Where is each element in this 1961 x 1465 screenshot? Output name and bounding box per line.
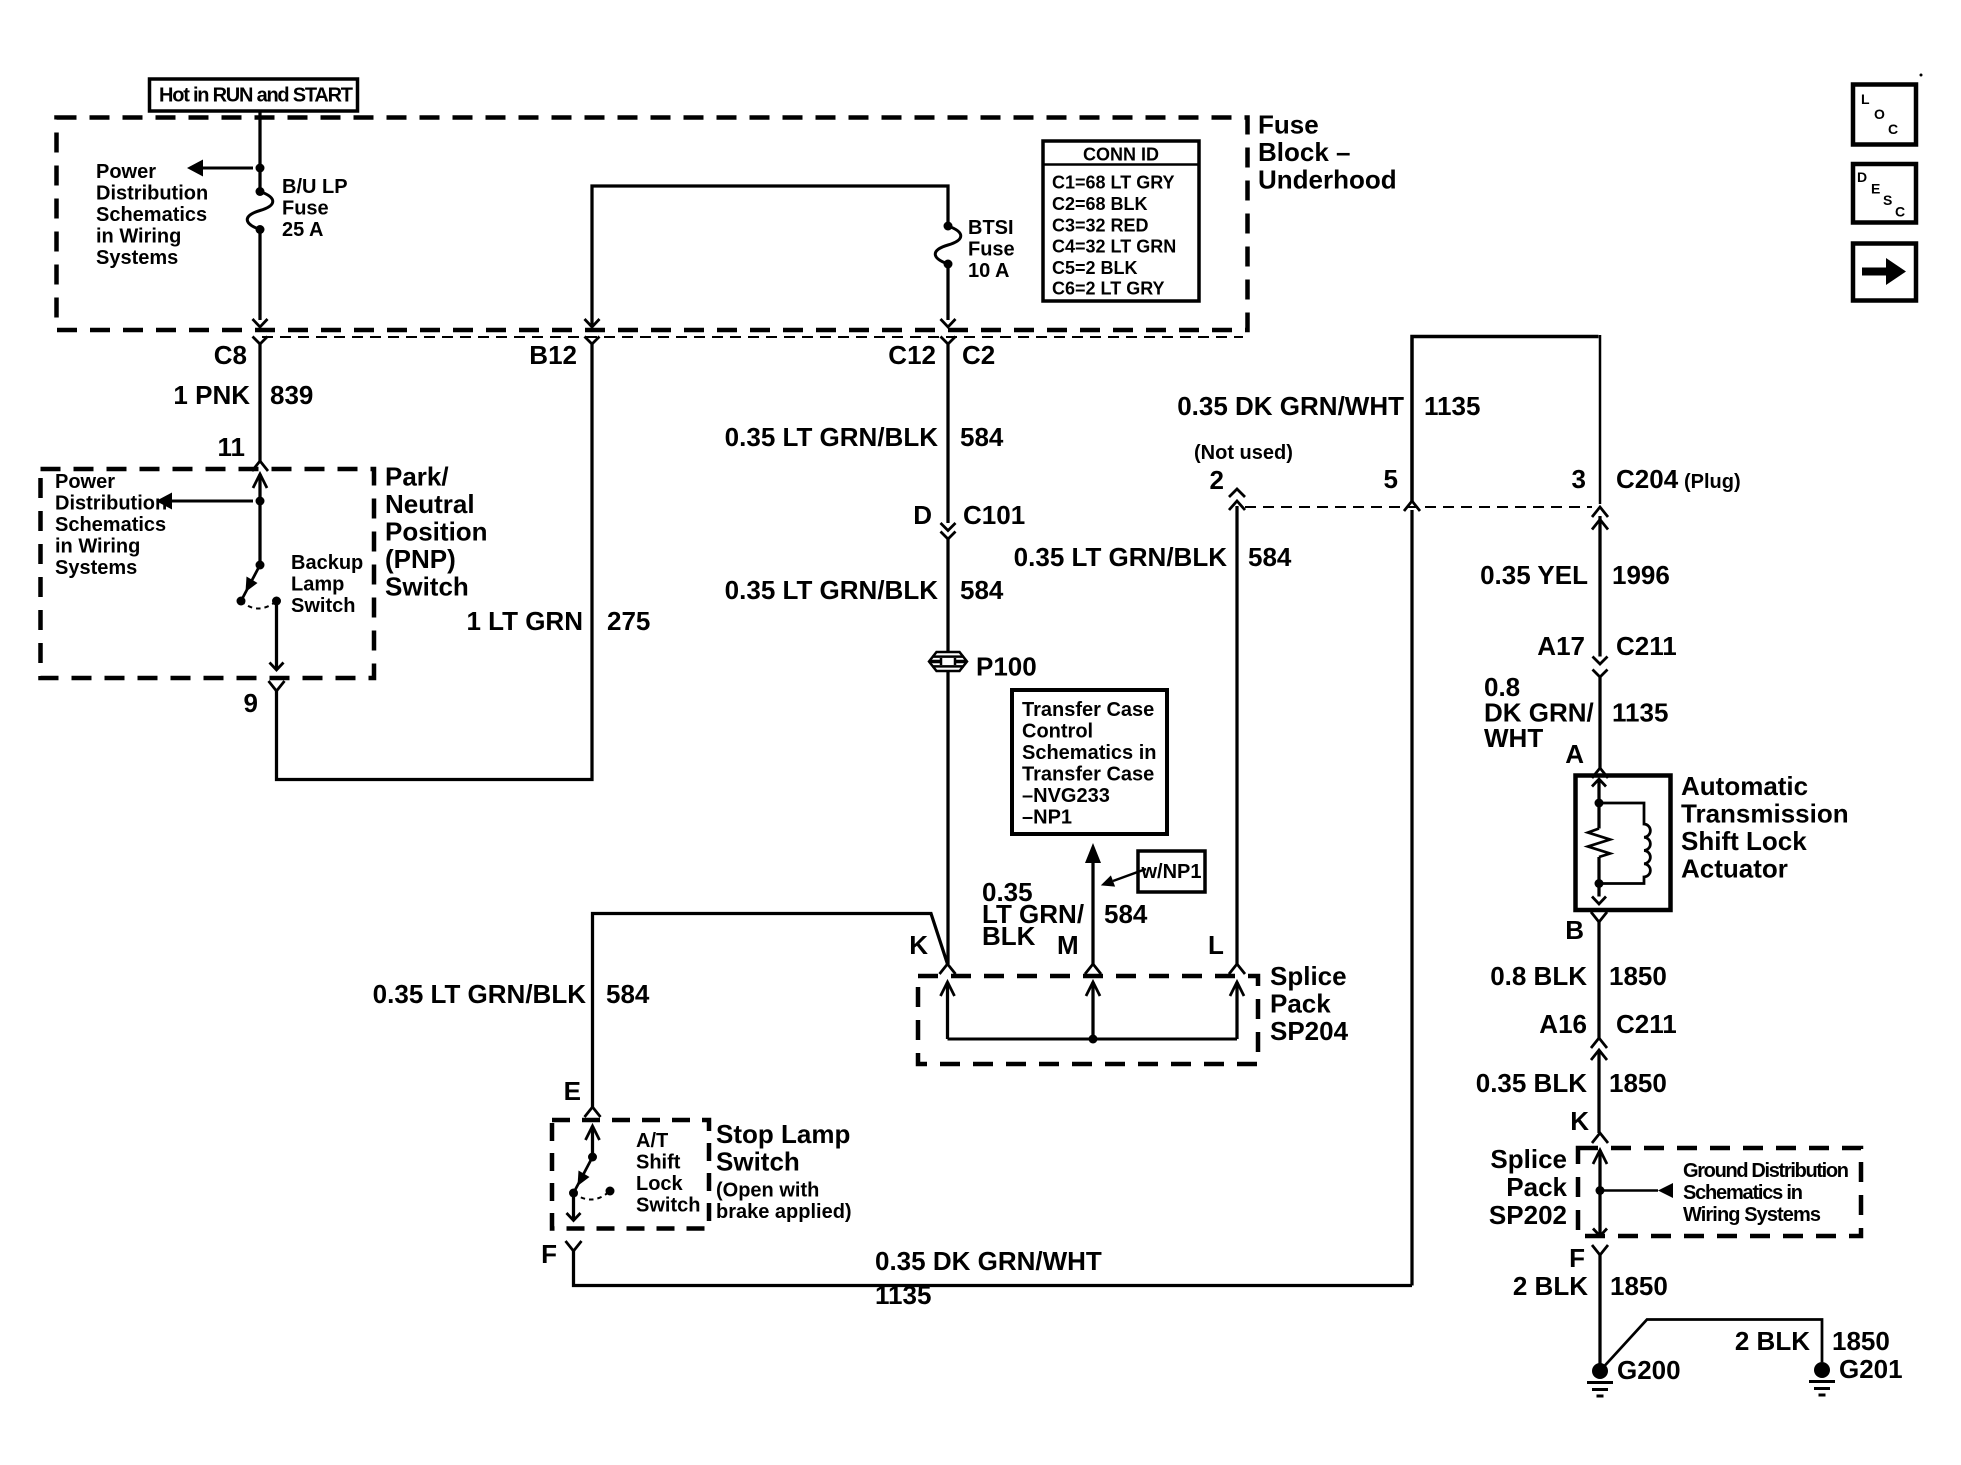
speck xyxy=(1920,74,1923,77)
A/T shift lock switch dashed throw arc xyxy=(574,1191,611,1200)
svg-text:Transfer Case: Transfer Case xyxy=(1022,699,1154,721)
svg-text:Distribution: Distribution xyxy=(55,493,167,515)
svg-text:Fuse: Fuse xyxy=(1258,110,1319,140)
label Backup Lamp Switch xyxy=(291,552,363,617)
wire fuse output down to C8 xyxy=(258,230,261,321)
transfer case control reference box xyxy=(1012,690,1167,834)
svg-text:SP204: SP204 xyxy=(1270,1016,1349,1046)
svg-text:F: F xyxy=(1569,1243,1585,1273)
svg-text:584: 584 xyxy=(960,422,1004,452)
wire arrow to power distribution reference (PNP) xyxy=(172,500,253,503)
wire E-feed from splice pack K xyxy=(593,914,948,1109)
svg-text:1135: 1135 xyxy=(1424,391,1480,421)
label BTSI Fuse 10 A xyxy=(968,217,1015,282)
label power distribution schematics (PNP) xyxy=(55,471,167,579)
svg-text:L: L xyxy=(1208,930,1224,960)
svg-text:G201: G201 xyxy=(1839,1354,1903,1384)
svg-text:1135: 1135 xyxy=(1612,698,1668,728)
label Automatic Transmission Shift Lock Actuator xyxy=(1681,771,1849,884)
wire 2 BLK 1850 to G200 xyxy=(1598,1255,1601,1366)
pin E terminal xyxy=(585,1107,601,1117)
terminal K xyxy=(940,964,956,974)
actuator box xyxy=(1576,776,1671,911)
icon box arrow xyxy=(1853,244,1916,301)
connector C101 pin D xyxy=(913,500,1025,530)
svg-text:Lamp: Lamp xyxy=(291,574,344,596)
svg-text:Stop Lamp: Stop Lamp xyxy=(716,1119,850,1149)
svg-text:G200: G200 xyxy=(1617,1355,1681,1385)
value label 1 LT GRN 275 xyxy=(466,606,650,636)
svg-text:BTSI: BTSI xyxy=(968,217,1014,239)
svg-text:(Not used): (Not used) xyxy=(1194,442,1293,464)
svg-text:0.35 BLK: 0.35 BLK xyxy=(1476,1068,1587,1098)
fuse BTSI 10 A xyxy=(944,222,953,231)
svg-text:B12: B12 xyxy=(529,340,577,370)
pin 5 terminal xyxy=(1404,501,1420,511)
wire from Hot box into fuse block xyxy=(258,111,261,168)
actuator exit arrow xyxy=(1592,897,1606,905)
svg-text:in Wiring: in Wiring xyxy=(96,226,181,248)
label power distribution schematics (fuse block) xyxy=(96,161,208,269)
CONN ID table box xyxy=(1043,141,1199,301)
label Park/Neutral Position (PNP) Switch xyxy=(385,462,488,602)
value label 0.35 LT GRN/BLK 584 (L wire) xyxy=(1014,542,1292,572)
svg-text:584: 584 xyxy=(1248,542,1292,572)
svg-text:WHT: WHT xyxy=(1484,723,1543,753)
svg-text:Control: Control xyxy=(1022,721,1093,743)
svg-text:C1=68 LT GRY: C1=68 LT GRY xyxy=(1052,173,1175,193)
svg-text:Pack: Pack xyxy=(1506,1172,1567,1202)
svg-text:(PNP): (PNP) xyxy=(385,544,456,574)
wire 0.35 DK GRN/WHT 1135 bottom run xyxy=(574,1251,1413,1286)
svg-text:1850: 1850 xyxy=(1609,1068,1667,1098)
svg-text:BLK: BLK xyxy=(982,921,1036,951)
wire 0.35 YEL 1996 xyxy=(1598,516,1601,657)
svg-text:5: 5 xyxy=(1384,464,1398,494)
pin labels C12 C2 xyxy=(888,340,995,370)
pin 11 terminal chevron xyxy=(252,461,268,471)
svg-text:in Wiring: in Wiring xyxy=(55,536,140,558)
svg-text:E: E xyxy=(564,1076,581,1106)
svg-text:B: B xyxy=(1565,915,1584,945)
svg-text:1 PNK: 1 PNK xyxy=(173,380,250,410)
svg-text:Hot in RUN and START: Hot in RUN and START xyxy=(159,85,353,107)
svg-text:Switch: Switch xyxy=(716,1147,800,1177)
wire 584 from C2 down xyxy=(946,344,949,523)
svg-text:1135: 1135 xyxy=(875,1280,931,1310)
fuse B/U LP 25 A xyxy=(258,168,261,192)
reference tag w/NP1 xyxy=(1138,851,1205,892)
value label 1 PNK 839 xyxy=(173,380,313,410)
PNP switch dashed box xyxy=(41,469,375,678)
icon box DESC xyxy=(1853,164,1916,223)
junction dot (actuator bottom) xyxy=(1595,879,1604,888)
svg-text:1850: 1850 xyxy=(1609,961,1667,991)
svg-text:Position: Position xyxy=(385,517,488,547)
connector B12 terminal xyxy=(585,337,600,345)
svg-text:C: C xyxy=(1895,204,1905,220)
svg-text:Switch: Switch xyxy=(636,1195,700,1217)
svg-text:L: L xyxy=(1861,91,1870,107)
svg-text:Shift Lock: Shift Lock xyxy=(1681,826,1807,856)
svg-text:C6=2 LT GRY: C6=2 LT GRY xyxy=(1052,279,1165,299)
svg-text:0.35 DK GRN/WHT: 0.35 DK GRN/WHT xyxy=(875,1246,1102,1276)
junction dot xyxy=(256,164,265,173)
pin A terminal xyxy=(1592,768,1608,778)
junction dot PNP xyxy=(256,497,265,506)
label B/U LP Fuse 25 A xyxy=(282,176,348,241)
svg-text:2 BLK: 2 BLK xyxy=(1513,1271,1588,1301)
svg-text:C2=68 BLK: C2=68 BLK xyxy=(1052,194,1148,214)
svg-text:275: 275 xyxy=(607,606,650,636)
svg-text:2 BLK: 2 BLK xyxy=(1735,1326,1810,1356)
wire B12 up through fuse block to BTSI fuse xyxy=(592,186,948,327)
SP202 entry arrow xyxy=(1593,1150,1607,1164)
wire 584 below C101 xyxy=(946,539,949,652)
ground G201 xyxy=(1814,1362,1830,1378)
svg-text:C5=2 BLK: C5=2 BLK xyxy=(1052,258,1138,278)
svg-text:0.8 BLK: 0.8 BLK xyxy=(1490,961,1587,991)
wire BTSI output down to C12 xyxy=(946,264,949,320)
svg-text:0.35 DK GRN/WHT: 0.35 DK GRN/WHT xyxy=(1177,391,1404,421)
splice pack SP204 dashed box xyxy=(918,976,1258,1064)
splice pack SP202 dashed box xyxy=(1578,1148,1861,1236)
connector C211 pin A16 xyxy=(1539,1009,1676,1039)
svg-text:0.35 LT GRN/BLK: 0.35 LT GRN/BLK xyxy=(725,422,939,452)
svg-text:Switch: Switch xyxy=(291,595,355,617)
connector C8 terminal xyxy=(253,337,268,345)
svg-text:Splice: Splice xyxy=(1270,961,1347,991)
svg-text:C101: C101 xyxy=(963,500,1025,530)
svg-text:0.35 YEL: 0.35 YEL xyxy=(1480,560,1588,590)
wire M up-arrow to transfer case xyxy=(1085,843,1101,863)
resistor (actuator) xyxy=(1588,829,1610,858)
backup lamp switch contacts xyxy=(237,597,246,606)
terminal L xyxy=(1229,964,1245,974)
svg-text:Systems: Systems xyxy=(55,557,137,579)
entry arrow into PNP switch xyxy=(253,474,267,488)
svg-text:–NP1: –NP1 xyxy=(1022,807,1072,829)
svg-text:Wiring Systems: Wiring Systems xyxy=(1683,1204,1821,1226)
svg-text:584: 584 xyxy=(960,575,1004,605)
wire switch output to pin 9 xyxy=(275,601,278,670)
svg-text:10 A: 10 A xyxy=(968,260,1010,282)
A/T shift lock switch blade xyxy=(588,1153,597,1162)
wire arrow to power distribution reference xyxy=(203,167,253,170)
svg-text:K: K xyxy=(909,930,928,960)
svg-text:C2: C2 xyxy=(962,340,995,370)
svg-text:Actuator: Actuator xyxy=(1681,854,1788,884)
svg-text:F: F xyxy=(541,1239,557,1269)
wire 0.35 BLK 1850 xyxy=(1597,1051,1600,1133)
ground G200 xyxy=(1592,1363,1608,1379)
svg-text:Power: Power xyxy=(55,471,115,493)
svg-text:w/NP1: w/NP1 xyxy=(1140,861,1201,883)
stop lamp switch dashed box xyxy=(552,1120,709,1229)
svg-text:brake applied): brake applied) xyxy=(716,1201,852,1223)
pin letters K M L xyxy=(909,930,1224,960)
junction dot (actuator top) xyxy=(1595,799,1604,808)
svg-text:25 A: 25 A xyxy=(282,219,324,241)
svg-text:A/T: A/T xyxy=(636,1130,668,1152)
svg-text:Ground Distribution: Ground Distribution xyxy=(1683,1160,1849,1182)
svg-text:Shift: Shift xyxy=(636,1152,681,1174)
svg-text:–NVG233: –NVG233 xyxy=(1022,785,1110,807)
svg-text:D: D xyxy=(913,500,932,530)
svg-text:C: C xyxy=(1888,121,1898,137)
value label 0.35 LT GRN/BLK 584 xyxy=(725,422,1004,452)
svg-text:D: D xyxy=(1857,169,1867,185)
svg-text:Schematics: Schematics xyxy=(55,514,166,536)
svg-text:Switch: Switch xyxy=(385,572,469,602)
svg-text:(Open with: (Open with xyxy=(716,1180,819,1202)
svg-text:0.35 LT GRN/BLK: 0.35 LT GRN/BLK xyxy=(725,575,939,605)
entry arrow into stop lamp switch xyxy=(586,1126,600,1140)
SP202 exit arrow xyxy=(1593,1229,1607,1237)
svg-text:0.35 LT GRN/BLK: 0.35 LT GRN/BLK xyxy=(373,979,587,1009)
value label 0.35 LT GRN/BLK 584 (E wire) xyxy=(373,979,650,1009)
junction dot SP202 xyxy=(1596,1186,1605,1195)
svg-text:Backup: Backup xyxy=(291,552,363,574)
svg-text:9: 9 xyxy=(244,688,258,718)
svg-text:Splice: Splice xyxy=(1490,1144,1567,1174)
svg-text:Neutral: Neutral xyxy=(385,489,475,519)
connector C211 pin A17 xyxy=(1537,631,1676,661)
pin K terminal (SP202) xyxy=(1592,1133,1608,1143)
svg-text:A: A xyxy=(1565,739,1584,769)
svg-text:A16: A16 xyxy=(1539,1009,1587,1039)
svg-text:Fuse: Fuse xyxy=(282,198,329,220)
svg-text:Lock: Lock xyxy=(636,1173,684,1195)
pin F terminal (SP202) xyxy=(1592,1245,1608,1255)
svg-text:Systems: Systems xyxy=(96,247,178,269)
backup lamp switch blade xyxy=(256,561,265,570)
svg-text:C3=32 RED: C3=32 RED xyxy=(1052,216,1149,236)
svg-text:(Plug): (Plug) xyxy=(1684,471,1741,493)
svg-text:2: 2 xyxy=(1210,465,1224,495)
svg-text:3: 3 xyxy=(1572,464,1586,494)
svg-text:1850: 1850 xyxy=(1832,1326,1890,1356)
label Fuse Block - Underhood xyxy=(1258,110,1397,195)
svg-text:1996: 1996 xyxy=(1612,560,1670,590)
svg-text:839: 839 xyxy=(270,380,313,410)
svg-text:C4=32 LT GRN: C4=32 LT GRN xyxy=(1052,237,1176,257)
splice bus SP204 xyxy=(948,1038,1238,1041)
svg-text:Power: Power xyxy=(96,161,156,183)
grommet P100 xyxy=(929,652,967,671)
svg-text:Pack: Pack xyxy=(1270,989,1331,1019)
value label 0.35 LT GRN/ BLK 584 (M wire) xyxy=(982,877,1148,951)
svg-text:M: M xyxy=(1057,930,1079,960)
terminal M xyxy=(1085,964,1101,974)
wire 0.8 DK GRN/WHT 1135 xyxy=(1598,677,1601,769)
node Hot in RUN and START xyxy=(150,79,358,111)
pin B terminal xyxy=(1591,912,1607,922)
A/T shift lock switch contacts xyxy=(569,1189,578,1198)
wire 1 PNK 839 xyxy=(258,344,261,462)
connector row thin dashed line (C8 B12 C12) xyxy=(262,336,1243,338)
svg-text:SP202: SP202 xyxy=(1489,1200,1567,1230)
pin 9 terminal xyxy=(269,681,285,691)
svg-text:B/U LP: B/U LP xyxy=(282,176,348,198)
pin F terminal xyxy=(566,1241,582,1251)
svg-text:C211: C211 xyxy=(1616,1009,1677,1039)
svg-text:Transfer Case: Transfer Case xyxy=(1022,764,1154,786)
inductor coil (actuator) xyxy=(1599,803,1650,884)
wire to ground distribution reference xyxy=(1600,1189,1658,1192)
svg-text:Park/: Park/ xyxy=(385,462,449,492)
wire L up to C204 pin 2 xyxy=(1235,506,1238,964)
svg-text:Distribution: Distribution xyxy=(96,183,208,205)
pin 3 terminal xyxy=(1592,507,1608,517)
svg-text:S: S xyxy=(1883,192,1892,208)
svg-text:Transmission: Transmission xyxy=(1681,799,1849,829)
svg-text:Underhood: Underhood xyxy=(1258,165,1397,195)
svg-text:CONN ID: CONN ID xyxy=(1083,145,1159,165)
icon box LOC xyxy=(1853,85,1916,145)
value label 0.35 LT GRN/BLK 584 (below C101) xyxy=(725,575,1004,605)
label Stop Lamp Switch xyxy=(716,1119,852,1223)
svg-text:O: O xyxy=(1874,106,1885,122)
label Splice Pack SP204 xyxy=(1270,961,1349,1046)
wire branch to G201 xyxy=(1604,1320,1822,1367)
svg-text:11: 11 xyxy=(218,432,246,462)
svg-text:Automatic: Automatic xyxy=(1681,771,1808,801)
svg-text:584: 584 xyxy=(606,979,650,1009)
connector C12/C2 terminal xyxy=(941,337,956,345)
value label 0.35 DK GRN/WHT 1135 (riser) xyxy=(1177,391,1480,421)
svg-text:Schematics: Schematics xyxy=(96,204,207,226)
wire 1 LT GRN 275 to B12 xyxy=(277,344,593,780)
label A/T Shift Lock Switch xyxy=(636,1130,700,1217)
label Ground Distribution Schematics in Wiring Systems xyxy=(1683,1160,1849,1226)
svg-text:Schematics in: Schematics in xyxy=(1022,742,1157,764)
svg-text:Fuse: Fuse xyxy=(968,239,1015,261)
svg-text:A17: A17 xyxy=(1537,631,1585,661)
svg-text:E: E xyxy=(1871,181,1880,197)
svg-text:Schematics in: Schematics in xyxy=(1683,1182,1803,1204)
wire P100 down to splice pack K xyxy=(946,671,949,964)
wire loop pin 5 to pin 3 xyxy=(1412,337,1599,504)
label Splice Pack SP202 xyxy=(1489,1144,1568,1230)
connector C204 thin dashed line xyxy=(1245,506,1592,508)
pin 2 terminal (Not used) xyxy=(1229,489,1245,497)
svg-text:P100: P100 xyxy=(976,652,1037,682)
svg-text:C204: C204 xyxy=(1616,464,1679,494)
svg-text:C12: C12 xyxy=(888,340,936,370)
wire 0.8 BLK 1850 xyxy=(1597,922,1600,1039)
svg-text:C8: C8 xyxy=(214,340,247,370)
svg-text:1850: 1850 xyxy=(1610,1271,1668,1301)
svg-text:Block –: Block – xyxy=(1258,137,1351,167)
wire switch output to pin F xyxy=(572,1193,575,1221)
fuse block underhood dashed box xyxy=(57,118,1248,331)
backup lamp switch dashed throw arc xyxy=(241,601,277,609)
svg-text:0.35 LT GRN/BLK: 0.35 LT GRN/BLK xyxy=(1014,542,1228,572)
svg-text:K: K xyxy=(1570,1106,1589,1136)
value label 0.35 DK GRN/WHT 1135 (bottom) xyxy=(875,1246,1102,1310)
svg-text:1 LT GRN: 1 LT GRN xyxy=(466,606,583,636)
actuator entry arrow xyxy=(1592,779,1606,787)
svg-text:C211: C211 xyxy=(1616,631,1677,661)
svg-text:584: 584 xyxy=(1104,899,1148,929)
wire DK GRN/WHT riser to C204 pin 5 xyxy=(1410,510,1413,1286)
